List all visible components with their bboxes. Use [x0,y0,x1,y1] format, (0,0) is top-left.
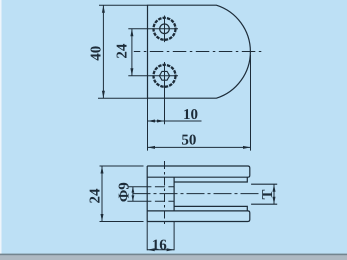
top gasket line [174,177,247,182]
arrow 24 bottom [130,68,133,76]
centerline of plate [134,51,262,53]
arrow 50 left [148,146,156,149]
dim line 50 [148,146,251,148]
arrow phi9 bottom [132,195,135,201]
hole H2 vertical crosshair + ext for dim 10 [164,62,166,124]
svg-text:24: 24 [88,188,104,204]
arrow 40 top [102,5,105,13]
glass left edge [173,177,175,211]
arrow 40 bottom [102,91,105,99]
left white sliver [0,0,2,260]
dim line 10 [148,120,202,122]
hole H2 outer circle [154,65,176,87]
svg-text:40: 40 [89,46,105,61]
svg-text:24: 24 [115,43,131,59]
ext line bottom of dim 40 [98,97,147,99]
arrow 16 left [147,248,155,251]
ext line 16 left [146,222,148,251]
ext line left edge down (for 10 and 50) [147,98,149,150]
bottom gray strip [0,255,347,260]
arrow T top [273,184,276,192]
hole H1 horizontal crosshair + ext for dim 24 [128,28,178,30]
dim line 24 side [101,166,103,222]
glass pane top edge [251,183,277,185]
hidden hole bottom edge [127,200,173,202]
svg-text:16: 16 [152,238,168,254]
ext line 16 right [173,222,175,251]
glass pane bottom edge [251,203,277,205]
dim line 40 [102,5,104,98]
hole H1 vertical crosshair [164,16,166,43]
hole H2 horizontal crosshair + ext for dim 24 [128,75,178,77]
ext line top of dim 24 side [100,165,144,167]
svg-text:50: 50 [181,133,196,149]
dim line T [273,184,275,204]
arrow 24 side bottom [101,214,104,222]
arrow 24 side top [101,166,104,174]
hole H2 inner circle [159,71,169,80]
dim line phi9 [132,187,134,201]
body left edge [146,166,148,222]
hole H1 inner circle [160,24,170,34]
side view centerline [133,193,261,195]
arrow 10 right [157,120,165,123]
screw axis centerline [164,161,166,227]
dim line 16 [147,249,174,251]
clamp body outline (side view) [147,166,250,222]
ext line right of dim 50 [250,55,252,151]
ext line top of dim 40 [99,4,147,6]
hidden hole top edge [127,186,173,188]
dim line 24 [131,29,133,76]
bottom strip top line [0,254,347,256]
arrow T bottom [273,197,276,205]
bottom gasket line [174,206,247,211]
ext line bottom of dim 24 side [100,221,144,223]
arrow 24 top [130,29,133,37]
arrow 16 right [167,248,175,251]
arrow phi9 top [132,187,135,193]
arrow 50 right [243,146,251,149]
svg-text:10: 10 [183,107,198,123]
plate outline (top view) [148,5,251,98]
svg-text:Φ9: Φ9 [117,182,133,202]
hole H1 outer circle [154,18,176,40]
arrow 10 left [148,120,156,123]
svg-text:T: T [260,189,276,199]
